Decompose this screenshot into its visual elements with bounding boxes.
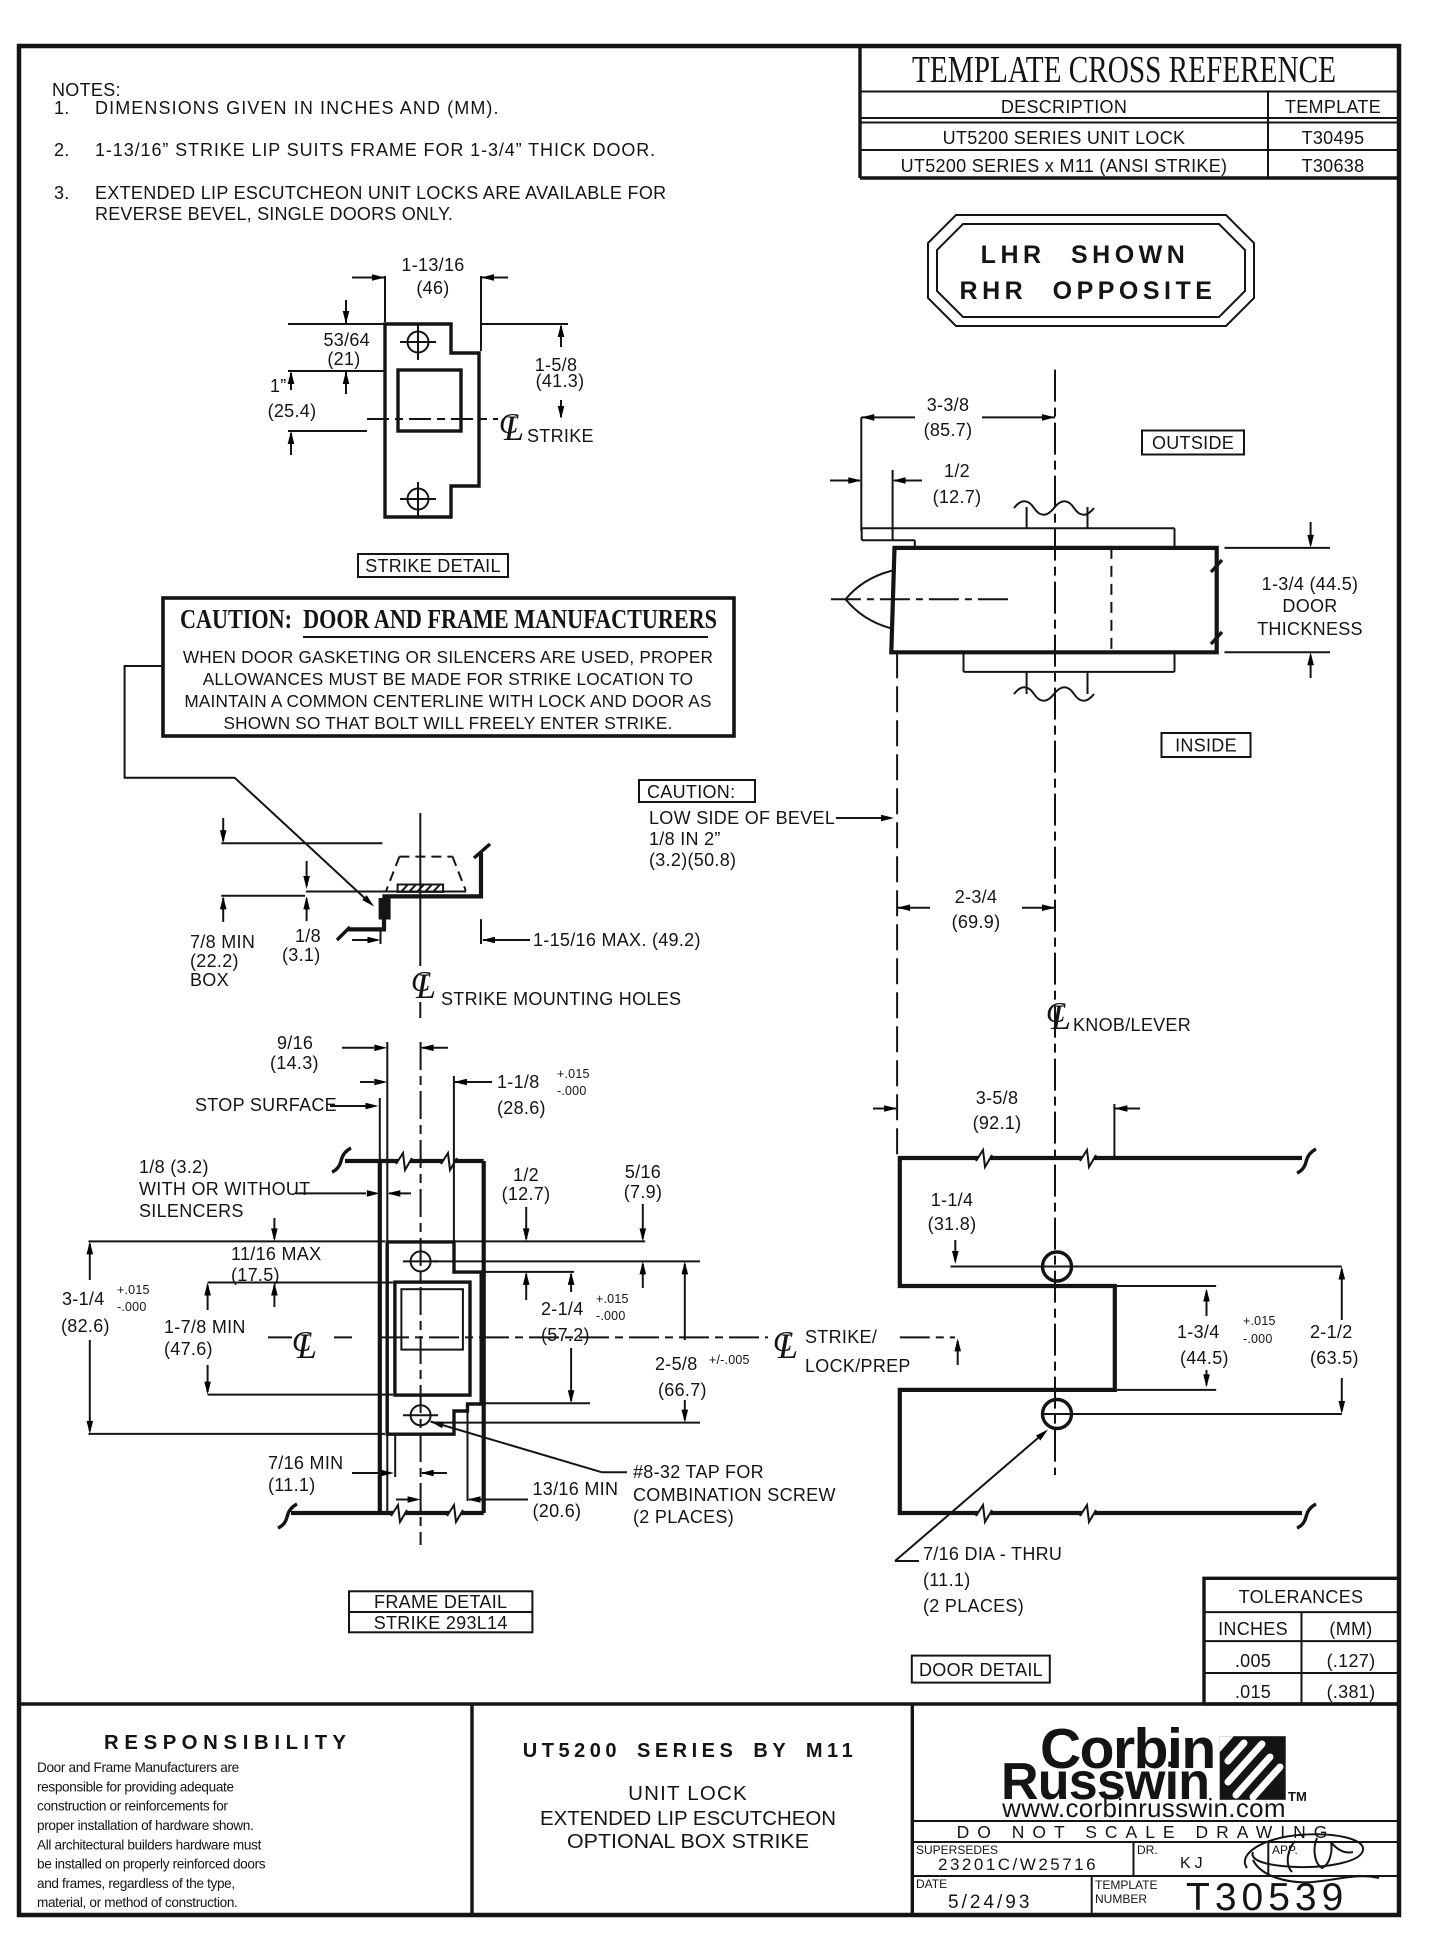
dim 1 inch (25.4) <box>268 371 367 455</box>
approval signature <box>1245 1834 1379 1882</box>
svg-text:LHR SHOWN: LHR SHOWN <box>981 241 1190 269</box>
svg-text:UT5200 SERIES BY M11: UT5200 SERIES BY M11 <box>523 1740 857 1762</box>
knob lever centerline vertical <box>1054 370 1056 1475</box>
svg-text:(44.5): (44.5) <box>1180 1348 1229 1368</box>
caution low side of bevel note <box>639 780 894 870</box>
svg-text:(21): (21) <box>327 349 360 369</box>
dim 2-3/4 (69.9) backset <box>897 887 1055 932</box>
inside label box <box>1162 733 1251 757</box>
svg-text:construction or reinforcements: construction or reinforcements for <box>37 1799 228 1814</box>
svg-text:1-7/8 MIN: 1-7/8 MIN <box>164 1317 246 1337</box>
dim 1-1/4 (31.8) <box>928 1190 977 1264</box>
centerline strike lock prep label <box>268 1326 961 1376</box>
svg-text:TEMPLATE: TEMPLATE <box>1285 97 1381 117</box>
svg-text:STRIKE 293L14: STRIKE 293L14 <box>374 1613 508 1633</box>
svg-text:ALLOWANCES MUST BE MADE FOR ST: ALLOWANCES MUST BE MADE FOR STRIKE LOCAT… <box>203 669 694 689</box>
svg-text:53/64: 53/64 <box>323 330 370 350</box>
dim 9/16 (14.3) <box>270 1033 448 1073</box>
svg-text:2-1/2: 2-1/2 <box>1310 1322 1353 1342</box>
svg-text:(20.6): (20.6) <box>533 1501 582 1521</box>
svg-text:1-1/4: 1-1/4 <box>931 1190 974 1210</box>
svg-text:MAINTAIN A COMMON CENTERLINE W: MAINTAIN A COMMON CENTERLINE WITH LOCK A… <box>184 691 711 711</box>
door detail outline <box>900 1149 1316 1528</box>
svg-text:1-13/16: 1-13/16 <box>401 255 464 275</box>
svg-text:WHEN DOOR GASKETING OR SILENCE: WHEN DOOR GASKETING OR SILENCERS ARE USE… <box>183 647 713 667</box>
svg-text:BOX: BOX <box>190 970 229 990</box>
svg-text:TM: TM <box>1288 1789 1307 1804</box>
svg-text:1/8 (3.2): 1/8 (3.2) <box>139 1157 209 1177</box>
centerline strike mounting holes <box>411 966 681 1009</box>
dim 1-1/8 (28.6) <box>360 1067 590 1118</box>
strike detail plate <box>367 324 498 517</box>
svg-text:REVERSE BEVEL, SINGLE DOORS ON: REVERSE BEVEL, SINGLE DOORS ONLY. <box>95 204 453 224</box>
svg-text:(11.1): (11.1) <box>268 1475 316 1495</box>
svg-text:INCHES: INCHES <box>1218 1619 1288 1639</box>
frame edge extension above frame <box>379 1098 381 1161</box>
dim 1-13/16 (46) strike width <box>352 255 508 351</box>
svg-text:THICKNESS: THICKNESS <box>1257 619 1363 639</box>
svg-text:(14.3): (14.3) <box>270 1053 319 1073</box>
responsibility block <box>37 1731 346 1910</box>
svg-text:1-3/4: 1-3/4 <box>1177 1322 1220 1342</box>
svg-text:2-3/4: 2-3/4 <box>955 887 998 907</box>
svg-text:(.381): (.381) <box>1327 1682 1376 1702</box>
svg-text:5/16: 5/16 <box>625 1162 661 1182</box>
svg-text:(11.1): (11.1) <box>923 1570 971 1590</box>
svg-text:OPTIONAL BOX STRIKE: OPTIONAL BOX STRIKE <box>567 1830 809 1853</box>
tolerances table <box>1204 1578 1399 1704</box>
svg-text:All architectural builders har: All architectural builders hardware must <box>37 1838 262 1853</box>
svg-text:T30495: T30495 <box>1302 128 1365 148</box>
dim 2-1/4 (57.2) <box>483 1272 629 1403</box>
LHR shown RHR opposite box <box>928 215 1254 326</box>
svg-text:(46): (46) <box>416 278 449 298</box>
corbin russwin logo <box>1001 1717 1307 1823</box>
dim 1-3/4 (44.5) door thickness <box>1225 522 1363 678</box>
centerline knob lever label <box>1046 997 1191 1037</box>
dim 7/8 min (22.2) box <box>190 818 255 990</box>
svg-text:be installed on properly reinf: be installed on properly reinforced door… <box>37 1857 266 1872</box>
svg-text:.015: .015 <box>1235 1682 1271 1702</box>
svg-text:FRAME DETAIL: FRAME DETAIL <box>374 1592 507 1612</box>
leader 8-32 tap <box>430 1418 836 1527</box>
svg-text:+/-.005: +/-.005 <box>709 1353 750 1367</box>
svg-text:INSIDE: INSIDE <box>1175 736 1237 756</box>
svg-text:(69.9): (69.9) <box>952 912 1001 932</box>
svg-text:(22.2): (22.2) <box>190 951 239 971</box>
svg-text:3.: 3. <box>54 183 70 203</box>
dim 1-3/4 lock prep <box>1117 1286 1276 1390</box>
svg-text:T30638: T30638 <box>1302 156 1365 176</box>
svg-text:13/16 MIN: 13/16 MIN <box>533 1479 619 1499</box>
svg-text:COMBINATION SCREW: COMBINATION SCREW <box>633 1485 836 1505</box>
svg-text:TEMPLATE CROSS REFERENCE: TEMPLATE CROSS REFERENCE <box>912 49 1336 91</box>
svg-text:7/16 MIN: 7/16 MIN <box>268 1453 343 1473</box>
svg-text:(.127): (.127) <box>1327 1651 1376 1671</box>
dim 1-5/8 (41.3) <box>481 324 584 419</box>
leader 7/16 dia thru <box>895 1427 1062 1616</box>
dim 13/16 min (20.6) <box>396 1404 618 1521</box>
do not scale drawing row <box>912 1821 1399 1842</box>
dim 1/8 (3.2) silencers <box>139 1157 411 1221</box>
notes text <box>52 80 666 224</box>
svg-text:DR.: DR. <box>1137 1843 1158 1857</box>
dim 1-7/8 min (47.6) <box>164 1283 393 1395</box>
svg-text:7/16 DIA - THRU: 7/16 DIA - THRU <box>923 1544 1062 1564</box>
svg-text:LOCK/PREP: LOCK/PREP <box>805 1356 911 1376</box>
svg-text:1-1/8: 1-1/8 <box>497 1072 540 1092</box>
strike detail label box <box>358 554 508 577</box>
svg-text:CAUTION:: CAUTION: <box>647 782 735 802</box>
svg-text:(25.4): (25.4) <box>268 401 317 421</box>
svg-text:(3.1): (3.1) <box>282 945 321 965</box>
svg-text:(3.2)(50.8): (3.2)(50.8) <box>649 850 736 870</box>
svg-text:R E S P O N S I B I L I T Y: R E S P O N S I B I L I T Y <box>104 1731 346 1754</box>
svg-text:DOOR DETAIL: DOOR DETAIL <box>919 1660 1043 1680</box>
dim 3-5/8 (92.1) <box>873 1088 1140 1158</box>
svg-text:(MM): (MM) <box>1329 1619 1372 1639</box>
svg-text:3-5/8: 3-5/8 <box>976 1088 1019 1108</box>
svg-text:(12.7): (12.7) <box>933 487 982 507</box>
dim 7/16 min (11.1) <box>268 1434 447 1495</box>
dim arrow lip offset <box>352 929 381 944</box>
dim 5/16 (7.9) <box>624 1162 663 1288</box>
svg-text:5/24/93: 5/24/93 <box>948 1892 1032 1913</box>
frame centerline vertical <box>420 1042 422 1545</box>
frame strike plate <box>387 1242 481 1434</box>
svg-text:2-1/4: 2-1/4 <box>541 1299 584 1319</box>
svg-text:3-3/8: 3-3/8 <box>927 395 970 415</box>
svg-text:-.000: -.000 <box>117 1300 147 1314</box>
svg-text:9/16: 9/16 <box>277 1033 313 1053</box>
door detail screw holes 7/16 dia <box>951 1252 1342 1429</box>
svg-text:1-15/16 MAX. (49.2): 1-15/16 MAX. (49.2) <box>533 930 701 950</box>
svg-text:EXTENDED LIP ESCUTCHEON UNIT L: EXTENDED LIP ESCUTCHEON UNIT LOCKS ARE A… <box>95 183 666 203</box>
svg-text:KNOB/LEVER: KNOB/LEVER <box>1073 1015 1191 1035</box>
svg-text:(7.9): (7.9) <box>624 1182 663 1202</box>
dim 11/16 max (17.5) <box>231 1218 321 1307</box>
svg-text:(31.8): (31.8) <box>928 1214 977 1234</box>
svg-text:(2 PLACES): (2 PLACES) <box>923 1596 1024 1616</box>
svg-text:DOOR: DOOR <box>1282 596 1337 616</box>
svg-text:DATE: DATE <box>916 1877 947 1891</box>
svg-text:11/16 MAX: 11/16 MAX <box>231 1244 321 1264</box>
svg-text:(63.5): (63.5) <box>1310 1348 1359 1368</box>
svg-text:UT5200 SERIES UNIT LOCK: UT5200 SERIES UNIT LOCK <box>943 128 1186 148</box>
frame detail jamb <box>278 1148 484 1528</box>
svg-text:material, or method of constru: material, or method of construction. <box>37 1895 237 1910</box>
svg-text:LOW SIDE OF BEVEL: LOW SIDE OF BEVEL <box>649 808 835 828</box>
supersedes row <box>912 1842 1399 1876</box>
dim 3-3/8 (85.7) <box>861 395 1055 531</box>
svg-text:-.000: -.000 <box>557 1084 587 1098</box>
svg-text:SILENCERS: SILENCERS <box>139 1201 244 1221</box>
svg-text:STRIKE: STRIKE <box>527 426 594 446</box>
plate edge extension above frame <box>453 1076 455 1242</box>
svg-text:+.015: +.015 <box>557 1067 590 1081</box>
dim 3-1/4 (82.6) <box>61 1241 385 1434</box>
outside label box <box>1142 431 1244 455</box>
strike lip section drawing <box>221 813 490 1018</box>
svg-text:2.: 2. <box>54 140 70 160</box>
frame detail label box <box>349 1591 532 1633</box>
svg-text:(2 PLACES): (2 PLACES) <box>633 1507 734 1527</box>
door bevel edge dashed line <box>896 652 898 1158</box>
svg-text:EXTENDED LIP ESCUTCHEON: EXTENDED LIP ESCUTCHEON <box>540 1807 836 1830</box>
svg-text:(82.6): (82.6) <box>61 1316 110 1336</box>
svg-text:-.000: -.000 <box>1243 1332 1273 1346</box>
svg-text:UT5200 SERIES x M11 (ANSI STRI: UT5200 SERIES x M11 (ANSI STRIKE) <box>901 156 1228 176</box>
svg-text:DESCRIPTION: DESCRIPTION <box>1001 97 1127 117</box>
svg-text:NOTES:: NOTES: <box>52 80 121 100</box>
svg-text:+.015: +.015 <box>596 1292 629 1306</box>
svg-text:2-5/8: 2-5/8 <box>655 1354 698 1374</box>
dim 1-15/16 max (49.2) <box>481 919 701 950</box>
svg-text:(41.3): (41.3) <box>536 371 585 391</box>
door detail label box <box>912 1656 1050 1683</box>
series title block <box>523 1740 857 1853</box>
dim 1/2 (12.7) frame <box>454 1165 645 1300</box>
svg-text:Door and Frame Manufacturers a: Door and Frame Manufacturers are <box>37 1760 239 1775</box>
leader from caution box to gasket detail <box>125 666 377 909</box>
caution door and frame manufacturers box <box>163 598 734 736</box>
svg-text:APP.: APP. <box>1272 1843 1298 1857</box>
svg-text:STRIKE/: STRIKE/ <box>805 1327 877 1347</box>
svg-text:+.015: +.015 <box>117 1283 150 1297</box>
dim 1/2 (12.7) reveal <box>830 461 981 540</box>
svg-text:DIMENSIONS GIVEN IN INCHES AND: DIMENSIONS GIVEN IN INCHES AND (MM). <box>95 98 500 118</box>
title block <box>19 1704 1399 1915</box>
svg-text:3-1/4: 3-1/4 <box>62 1289 105 1309</box>
template cross reference table <box>860 47 1399 178</box>
svg-text:.005: .005 <box>1235 1651 1271 1671</box>
svg-text:(85.7): (85.7) <box>924 420 973 440</box>
svg-text:RHR OPPOSITE: RHR OPPOSITE <box>960 277 1217 305</box>
dim 2-1/2 (63.5) <box>1310 1267 1359 1415</box>
svg-text:1-13/16” STRIKE LIP SUITS FRAM: 1-13/16” STRIKE LIP SUITS FRAME FOR 1-3/… <box>95 140 656 160</box>
svg-text:(47.6): (47.6) <box>164 1339 213 1359</box>
svg-text:TEMPLATE: TEMPLATE <box>1095 1878 1157 1892</box>
svg-text:7/8 MIN: 7/8 MIN <box>190 932 255 952</box>
centerline symbol strike <box>499 408 594 448</box>
svg-text:(28.6): (28.6) <box>497 1098 546 1118</box>
svg-text:T30539: T30539 <box>1186 1876 1348 1919</box>
dim 53/64 (21) <box>288 300 384 394</box>
svg-text:NUMBER: NUMBER <box>1095 1892 1147 1906</box>
svg-text:1/8 IN 2”: 1/8 IN 2” <box>649 829 721 849</box>
svg-text:1”: 1” <box>270 376 287 396</box>
svg-text:(12.7): (12.7) <box>502 1184 551 1204</box>
svg-text:1/2: 1/2 <box>513 1165 539 1185</box>
svg-text:1.: 1. <box>54 98 70 118</box>
dim 1/8 (3.1) <box>282 861 321 965</box>
svg-text:WITH OR WITHOUT: WITH OR WITHOUT <box>139 1179 310 1199</box>
svg-text:TOLERANCES: TOLERANCES <box>1239 1587 1364 1607</box>
dim 2-5/8 (66.7) <box>433 1261 750 1422</box>
svg-text:STOP SURFACE: STOP SURFACE <box>195 1095 337 1115</box>
svg-text:responsible for providing adeq: responsible for providing adequate <box>37 1779 234 1794</box>
svg-text:+.015: +.015 <box>1243 1314 1276 1328</box>
svg-text:(92.1): (92.1) <box>973 1113 1022 1133</box>
svg-text:-.000: -.000 <box>596 1309 626 1323</box>
stop surface extension above frame <box>386 1042 388 1161</box>
svg-text:#8-32 TAP FOR: #8-32 TAP FOR <box>633 1462 764 1482</box>
date row <box>916 1876 1348 1919</box>
svg-text:STRIKE DETAIL: STRIKE DETAIL <box>365 556 501 576</box>
svg-text:www.corbinrusswin.com: www.corbinrusswin.com <box>1001 1793 1286 1823</box>
svg-text:and frames, regardless of the: and frames, regardless of the type, <box>37 1876 235 1891</box>
svg-text:STRIKE MOUNTING HOLES: STRIKE MOUNTING HOLES <box>441 989 681 1009</box>
svg-text:KJ: KJ <box>1180 1855 1207 1872</box>
svg-text:SHOWN SO THAT BOLT WILL FREELY: SHOWN SO THAT BOLT WILL FREELY ENTER STR… <box>223 713 672 733</box>
svg-text:CAUTION: DOOR AND FRAME MANUF: CAUTION: DOOR AND FRAME MANUFACTURERS <box>180 604 717 634</box>
svg-text:(66.7): (66.7) <box>658 1380 707 1400</box>
svg-text:1-3/4 (44.5): 1-3/4 (44.5) <box>1262 574 1359 594</box>
svg-text:OUTSIDE: OUTSIDE <box>1152 433 1234 453</box>
svg-text:(57.2): (57.2) <box>541 1325 590 1345</box>
svg-text:23201C/W25716: 23201C/W25716 <box>938 1855 1098 1874</box>
door section drawing <box>831 501 1222 701</box>
svg-text:1/8: 1/8 <box>295 926 321 946</box>
stop surface label <box>195 1095 379 1115</box>
svg-text:proper installation of hardwar: proper installation of hardware shown. <box>37 1818 253 1833</box>
svg-text:1/2: 1/2 <box>944 461 970 481</box>
svg-text:UNIT LOCK: UNIT LOCK <box>628 1782 748 1805</box>
